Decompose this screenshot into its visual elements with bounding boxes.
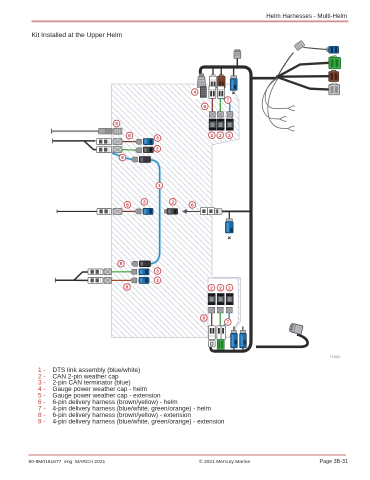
svg-text:2: 2 xyxy=(171,199,174,205)
connector: brown drop connector xyxy=(218,75,225,88)
wire: brown pigtail (bottom group) xyxy=(211,313,213,326)
connector: gauge power weather cap - extension (item 5 target) xyxy=(113,128,122,134)
svg-text:3: 3 xyxy=(156,269,159,275)
svg-text:Page 3B-31: Page 3B-31 xyxy=(320,459,348,465)
connector: white square plug with glyph (bottom group) xyxy=(209,341,216,347)
wire: branch from trunk to right fan point xyxy=(251,77,278,80)
svg-text:71682: 71682 xyxy=(330,354,341,359)
wire: blue pigtail (bottom group) xyxy=(224,313,230,326)
callout 8 (middle row) xyxy=(124,202,131,209)
callout 2 (bottom group c) xyxy=(226,284,233,291)
wire: stub bottom blue connector 1 to bar xyxy=(233,348,235,352)
connector: weather plug 1 (bottom group) xyxy=(209,307,215,313)
callout 5 (upper-left) xyxy=(113,120,120,127)
connector: gauge power plug above bus xyxy=(234,50,241,59)
connector: CAN 2-pin weather cap (middle row right, item 2) xyxy=(164,209,177,215)
wire: stub down to mid blue DTS connector xyxy=(228,211,230,219)
connector: white 4-pin (lower row 2) xyxy=(88,269,103,275)
callout 8 (upper-left) xyxy=(126,132,133,139)
wire: green pigtail (top group) xyxy=(219,98,221,111)
wire: bus drop stub to blue DTS connector xyxy=(233,69,235,77)
connector: gauge power weather cap - helm (item 4 target) xyxy=(197,74,206,88)
wire: bus drop stub to 6-pin white connector xyxy=(212,69,214,77)
svg-text:2: 2 xyxy=(219,133,222,139)
connector: white 6-pin helm connector (top group, brown lead) xyxy=(209,86,216,98)
wire: main trunk harness (bus + right vertical + bottom run) xyxy=(204,67,251,351)
callout 2 (bottom group a) xyxy=(208,284,215,291)
svg-text:90-8M0161677 eng MARCH 2021: 90-8M0161677 eng MARCH 2021 xyxy=(29,459,106,465)
wire: bare lead 2 with fork xyxy=(262,78,279,119)
connector: blue DTS vertical 2 (bottom group) xyxy=(240,330,247,347)
svg-text:2: 2 xyxy=(219,285,222,291)
wire: bare lead 1 with fork xyxy=(265,78,288,109)
connector: end connector to trunk (middle row) xyxy=(215,209,222,215)
connector: green connector (bottom group) xyxy=(217,340,224,350)
wire: brown pigtail (top group) xyxy=(211,98,213,111)
hatched dash panel xyxy=(112,84,241,337)
connector: arrow plug (middle row) xyxy=(182,209,187,214)
callout 3 (upper-left) xyxy=(154,135,161,142)
wire: stub up to top connector xyxy=(236,59,238,67)
connector: 2-pin CAN terminator blue (lower row 3, item 3) xyxy=(139,277,149,283)
connector: white 6-pin helm connector (bottom group col 1) xyxy=(208,326,215,340)
wire: blue pigtail (top group) xyxy=(222,98,230,111)
callout 2 (top group a) xyxy=(209,132,216,139)
node label x (middle) xyxy=(228,237,231,240)
white box behind top connector group xyxy=(191,85,234,99)
callout 3 (lower row 2) xyxy=(154,268,161,275)
connector: CAN cap body 1 (top group) xyxy=(209,119,216,130)
wire: fan to gray connector xyxy=(278,77,329,89)
svg-text:4-pin delivery harness (blue/w: 4-pin delivery harness (blue/white, gree… xyxy=(53,418,225,425)
svg-text:2: 2 xyxy=(228,133,231,139)
svg-text:9: 9 xyxy=(121,155,124,161)
connector: weather cap (row C) xyxy=(113,147,122,153)
svg-text:-: - xyxy=(44,418,46,425)
wire: brown extension pigtail (middle row) xyxy=(122,210,137,212)
wire: middle row thin segment xyxy=(186,210,201,212)
connector: DTS link connector (row D) xyxy=(139,157,150,163)
svg-text:2: 2 xyxy=(210,285,213,291)
wire: bus drop stub to brown connector xyxy=(220,69,222,77)
wire: DTS link assembly blue cable (halo) xyxy=(112,153,160,264)
callout 2 (upper-left) xyxy=(154,146,161,153)
svg-text:2: 2 xyxy=(210,133,213,139)
connector: white connector (middle row left) xyxy=(97,209,112,215)
callout 7 (top group) xyxy=(225,97,232,104)
connector: 6-pin white drop connector xyxy=(209,75,216,88)
header red rule xyxy=(32,20,349,22)
svg-text:7: 7 xyxy=(226,98,229,104)
wire: stub up from bottom blue connector 2 xyxy=(242,327,244,331)
connector: white 6-pin (row B upper-left) xyxy=(97,139,112,145)
svg-text:2: 2 xyxy=(228,285,231,291)
connector: white 4-pin helm connector (top group, green+blue leads) xyxy=(217,86,224,98)
connector: small plug (lower row 1, DTS inline) xyxy=(131,261,137,266)
connector: white 6-pin (lower row 3) xyxy=(88,278,103,284)
wire: brown-red pigtail (lower row 3) xyxy=(112,279,132,281)
connector: blue DTS drop (middle, node x) xyxy=(226,219,234,233)
callout 3 (middle row) xyxy=(141,199,148,206)
white box around bottom connector group xyxy=(208,278,238,337)
wire: middle row from trunk xyxy=(216,210,252,212)
legend xyxy=(38,367,225,426)
callout 2 (middle row) xyxy=(170,199,177,206)
connector: weather plug 1 (top group) xyxy=(209,112,215,118)
node label x (top) xyxy=(232,92,235,95)
callout 8 (lower-left) xyxy=(124,284,131,291)
connector: small plug (row C) xyxy=(135,148,141,153)
callout 7 (bottom group) xyxy=(225,319,232,326)
svg-text:6: 6 xyxy=(202,316,205,322)
connector: weather plug 2 (top group) xyxy=(217,112,223,118)
wire: fan to small inline gray connector xyxy=(278,53,294,77)
connector: CAN cap body 3 (bottom group) xyxy=(226,294,233,305)
callout 3 (lower row 3) xyxy=(154,277,161,284)
connector: green (right stack) xyxy=(329,56,341,69)
svg-text:3: 3 xyxy=(156,278,159,284)
connector: 2-pin CAN terminator blue (middle row, item 3) xyxy=(143,208,153,214)
callout 4 (top group) xyxy=(192,89,199,96)
callout 6 (bottom group) xyxy=(201,315,208,322)
connector: CAN cap body 3 (top group) xyxy=(226,119,233,130)
svg-text:Kit Installed at the Upper Hel: Kit Installed at the Upper Helm xyxy=(32,32,123,39)
connector: blue 2-pin (right stack) xyxy=(327,46,339,53)
wire: inline gray connector to blue connector xyxy=(304,48,329,50)
svg-text:5: 5 xyxy=(115,121,118,127)
connector: small plug (lower row 2) xyxy=(131,269,137,274)
wire: green pigtail (row C) xyxy=(122,149,138,152)
callout 6 (middle row) xyxy=(189,202,196,209)
connector: small plug (lower row 3) xyxy=(131,278,137,283)
connector: CAN cap body 1 (bottom group) xyxy=(208,294,215,305)
connector: weather cap (middle row) xyxy=(113,208,122,214)
wire: bare lead 3 with fork xyxy=(268,79,288,129)
wire: pigtail from right connector to trunk xyxy=(256,335,308,347)
connector: dark ribbed connector in top group xyxy=(200,87,206,98)
callout 6 (top group) xyxy=(202,103,209,110)
wire: DTS link assembly blue cable (core) xyxy=(112,153,160,264)
svg-text:8: 8 xyxy=(126,285,129,291)
svg-text:8: 8 xyxy=(128,133,131,139)
wire: green pigtail (bottom group) xyxy=(219,313,221,327)
connector: blue DTS vertical 1 (bottom group) xyxy=(231,330,238,347)
callout 2 (top group c) xyxy=(226,132,233,139)
callouts xyxy=(113,89,233,326)
wire: upper-left gray gauge extension lead xyxy=(52,130,100,132)
connector: weather plug 3 (top group) xyxy=(227,112,233,118)
svg-text:3: 3 xyxy=(156,136,159,142)
wire: fan to green connector xyxy=(278,63,329,77)
connector: weather plug 3 (bottom group) xyxy=(226,307,232,313)
svg-text:3: 3 xyxy=(143,200,146,206)
svg-text:6: 6 xyxy=(191,203,194,209)
wire: bus left end curl xyxy=(200,67,204,74)
node: right fan junction xyxy=(276,75,280,79)
connector: pigtail round plug (bottom right) xyxy=(289,323,303,335)
connector: small plug (row D, DTS inline) xyxy=(131,157,137,162)
connector: white 4-pin (row C upper-left) xyxy=(97,147,112,153)
callout 2 (top group b) xyxy=(217,132,224,139)
wire: fan to brown connector xyxy=(278,75,329,78)
connector: weather plug 2 (bottom group) xyxy=(217,307,223,313)
connector: blue DTS drop connector with cap, node x xyxy=(230,76,237,90)
connector: weather cap (lower row 3) xyxy=(104,277,112,283)
svg-text:1: 1 xyxy=(158,183,161,189)
connector: weather cap (lower row 2) xyxy=(104,269,112,275)
svg-text:7: 7 xyxy=(226,320,229,326)
svg-text:4: 4 xyxy=(193,90,196,96)
wire: middle-left thin lead xyxy=(57,210,98,212)
connector: small plug (row B) xyxy=(135,139,141,144)
wire: upper-left black lead with fork to rows B and C xyxy=(53,141,98,150)
connector: DTS link connector (lower row 1) xyxy=(139,261,150,267)
svg-text:9: 9 xyxy=(120,261,123,267)
connector: weather cap (row B) xyxy=(113,139,122,145)
connector: 2-pin CAN terminator blue (lower row 2, item 3) xyxy=(139,269,149,275)
svg-text:9: 9 xyxy=(38,418,42,425)
connector: 2-pin CAN terminator blue (row B, item 3) xyxy=(143,139,153,145)
svg-text:Helm Harnesses - Multi-Helm: Helm Harnesses - Multi-Helm xyxy=(266,13,347,20)
wire: brown extension pigtail (row B) xyxy=(122,141,138,143)
footer red rule xyxy=(29,454,347,456)
svg-text:© 2021 Mercury Marine: © 2021 Mercury Marine xyxy=(199,458,250,465)
wire: green pigtail (lower row 2) xyxy=(112,271,132,273)
connector: white pair (middle row, 6-pin helm) xyxy=(201,208,215,215)
connector: small plug (middle row) xyxy=(135,209,141,214)
connector: CAN cap body 2 (bottom group) xyxy=(217,294,224,305)
connector: white 4-pin helm connector pair (bottom group col 2) xyxy=(217,326,225,340)
callout 9 (upper-left) xyxy=(119,154,126,161)
wire: lower-left black lead with fork xyxy=(55,272,89,280)
svg-text:2: 2 xyxy=(156,146,159,152)
wire: bottom run left end curl xyxy=(211,346,215,351)
wire: stub up from bottom blue connector 1 xyxy=(233,327,235,331)
connector: gray (right stack) xyxy=(329,83,340,95)
connector: brown (right stack) xyxy=(329,70,339,81)
svg-text:6: 6 xyxy=(203,104,206,110)
callout 9 (lower-left) xyxy=(118,260,125,267)
connector: CAN cap body 2 (top group) xyxy=(217,119,224,130)
connector: gauge power gray connector (row A upper-left) xyxy=(99,128,113,134)
callout 1 (DTS link) xyxy=(156,182,163,189)
wire: stub bottom blue connector 2 to bar xyxy=(242,348,244,352)
connector: small inline gray connector (right fan, top) xyxy=(294,40,305,50)
callout 2 (bottom group b) xyxy=(217,284,224,291)
svg-text:8: 8 xyxy=(126,202,129,208)
connector: CAN 2-pin weather cap (row C, item 2) xyxy=(143,147,153,153)
